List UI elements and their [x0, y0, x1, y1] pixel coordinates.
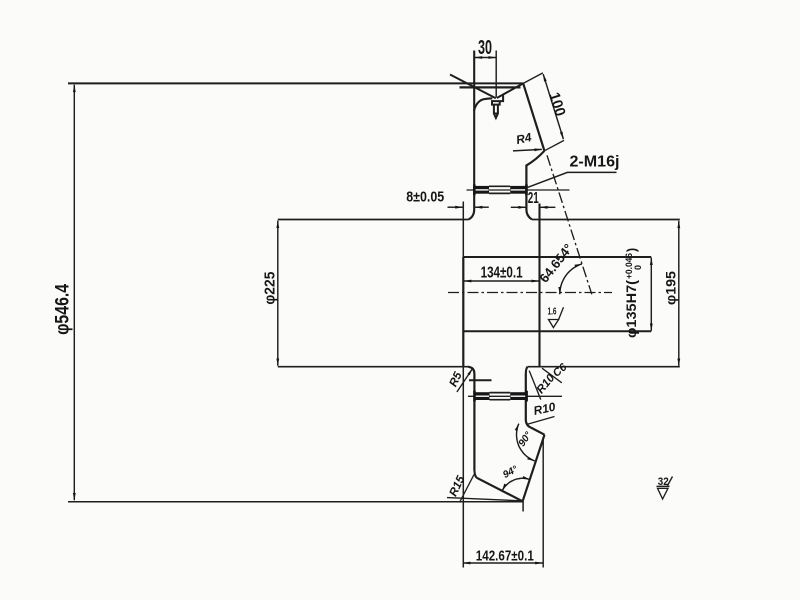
angled bolt-circle centerline — [547, 155, 592, 294]
text phi135H7 with tolerance — [624, 248, 643, 338]
dimension 100 line — [543, 74, 563, 139]
groove fillet curve — [474, 98, 492, 111]
center pin shaft — [494, 105, 498, 118]
tread cone diagonal right — [497, 83, 523, 98]
upper M16 end caps — [473, 184, 476, 195]
dimension phi546.4 line — [73, 85, 75, 501]
leader R15 slant — [460, 475, 475, 503]
dimension 142.67 right extension — [542, 437, 544, 568]
R10 fillet web to lower rim right — [526, 367, 528, 374]
tooth right steep edge — [523, 435, 545, 502]
lower rim left edge — [473, 374, 475, 471]
rim bottom face left + phi225 top extension — [278, 219, 469, 221]
svg-text:0: 0 — [633, 265, 643, 270]
lower M16 end caps — [473, 391, 476, 402]
svg-text:142.67±0.1: 142.67±0.1 — [476, 549, 534, 565]
angle 94 arc — [502, 478, 530, 491]
svg-text:R5: R5 — [448, 370, 465, 389]
svg-text:8±0.05: 8±0.05 — [406, 189, 444, 206]
lower M16 middle hollow — [490, 392, 511, 394]
svg-text:φ546.4: φ546.4 — [52, 284, 73, 335]
leader R15 underline — [447, 498, 523, 501]
phi546.4 bottom extension line — [68, 501, 523, 503]
R15 fillet — [474, 471, 476, 478]
leader C6 — [542, 368, 562, 383]
dimension 30 line — [475, 57, 496, 59]
leader R5 — [457, 369, 473, 392]
web right edge — [538, 204, 540, 367]
dimension phi225 line — [277, 221, 279, 366]
leader R10 lower — [527, 417, 555, 425]
roughness 32 symbol — [657, 477, 673, 500]
svg-text:32: 32 — [658, 476, 669, 488]
upper M16 thread bar right — [510, 186, 526, 194]
svg-text:21: 21 — [528, 190, 539, 207]
svg-text:100: 100 — [545, 90, 568, 118]
web top edge + phi135 top extension — [463, 256, 651, 258]
roughness 1.6 symbol — [549, 307, 564, 327]
svg-text:64.654°: 64.654° — [536, 241, 576, 286]
dimension 21 arrows — [511, 206, 526, 208]
upper M16 thread bar left — [474, 186, 489, 194]
leader R4 — [513, 149, 542, 151]
tread cone diagonal left — [450, 75, 496, 99]
svg-text:1.6: 1.6 — [548, 307, 557, 318]
dimension 134 line — [464, 280, 539, 282]
upper M16 hole centerline — [467, 189, 570, 191]
dimension 30 right extension — [495, 51, 497, 98]
leader 2-M16j — [527, 172, 616, 187]
center pin collar — [492, 94, 503, 104]
rim bottom face right + phi195 top extension — [532, 219, 680, 221]
svg-text:30: 30 — [478, 37, 492, 59]
lower M16 hole centerline — [468, 395, 562, 397]
web left edge thick part — [462, 257, 464, 367]
svg-text:R15: R15 — [448, 474, 468, 499]
svg-text:φ195: φ195 — [664, 270, 679, 305]
wheel top edge / phi546.4 upper extension line — [68, 82, 523, 84]
angle 64.654 arc — [560, 264, 582, 294]
svg-text:R10: R10 — [532, 400, 557, 418]
dimension phi195 line — [678, 221, 680, 366]
rim left edge (also ext line of 30) — [469, 51, 475, 220]
lower M16 thread bar right — [510, 392, 526, 400]
svg-text:): ) — [625, 248, 639, 252]
svg-text:2-M16j: 2-M16j — [570, 154, 620, 171]
svg-text:φ225: φ225 — [261, 272, 278, 305]
web bottom face right + phi195 bottom extension — [528, 366, 680, 368]
main horizontal centerline — [448, 292, 612, 294]
tread second line — [460, 86, 521, 88]
lower rim right edge — [525, 374, 527, 421]
R5 fillet web to lower rim — [468, 367, 474, 374]
svg-text:134±0.1: 134±0.1 — [481, 265, 523, 282]
tooth bottom slanted edge — [477, 478, 523, 502]
dimension 100 extension ticks — [523, 73, 564, 151]
upper M16 middle hollow — [489, 185, 510, 187]
dimension 8 arrows — [448, 206, 463, 208]
lower M16 thread bar left — [475, 392, 490, 400]
flange tip R4 curve to rim right edge — [526, 151, 544, 220]
dimension phi135 line — [650, 258, 652, 331]
svg-text:R4: R4 — [515, 130, 533, 147]
tip tick — [522, 501, 524, 511]
short dash line above lower hole — [469, 379, 492, 381]
dimension 142.67 line — [463, 562, 543, 564]
leader R10 upper — [529, 371, 541, 400]
svg-text:φ135H7(: φ135H7( — [624, 279, 639, 338]
bore bottom line + phi135 bottom extension — [463, 330, 651, 332]
web bottom face left + phi225 bottom extension — [278, 366, 468, 368]
angle 90 arc — [517, 424, 535, 461]
flange slant top edge — [523, 83, 544, 150]
tooth top edge — [526, 421, 545, 435]
web left edge + vertical extension line (8 dim / 142.67 dim) — [462, 202, 464, 568]
